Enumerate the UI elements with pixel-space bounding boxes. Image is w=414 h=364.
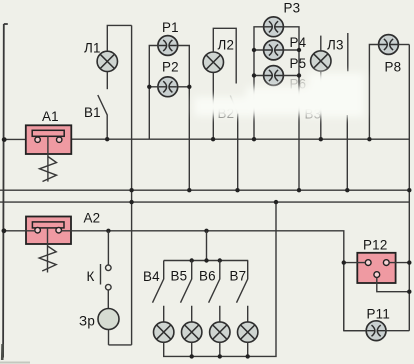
lamp L3 [311, 33, 348, 139]
svg-text:В6: В6 [199, 269, 216, 284]
lamp B5 lamp [182, 322, 202, 342]
wire L1 top bracket [107, 25, 131, 51]
switch B5 [181, 261, 192, 323]
node P5 left [252, 73, 256, 77]
wash band artifacts [194, 73, 364, 117]
svg-text:В5: В5 [171, 269, 188, 284]
wire bus H2 [0, 189, 409, 191]
wire P8 left [369, 45, 378, 140]
socket P11 [366, 321, 386, 341]
wire P12 right pin [389, 262, 409, 264]
svg-text:Зр: Зр [79, 314, 95, 329]
wire bus H1 [4, 138, 410, 140]
node P12 bottom [407, 290, 411, 294]
socket P8 [379, 35, 399, 55]
node lamp return H3 [274, 200, 278, 204]
wire P8 right [398, 44, 409, 46]
node lamp B5 bus [190, 354, 194, 358]
svg-text:Л2: Л2 [218, 38, 235, 53]
wire P1P2 right bus [178, 46, 190, 191]
svg-text:Р8: Р8 [385, 60, 402, 75]
node mid rail H2 [129, 188, 133, 192]
node header feed [204, 258, 208, 262]
wire Zr bottom [108, 330, 110, 345]
lamp L1 [97, 25, 132, 89]
node P12 right [407, 260, 411, 264]
node P3 bus to H2 [297, 188, 301, 192]
svg-text:Р1: Р1 [162, 20, 179, 35]
wire lamps bottom bus [164, 202, 276, 356]
node A2 wire lamp branch [204, 229, 208, 233]
node P3 bus to H1 [252, 137, 256, 141]
wire B3 upper stub [347, 33, 349, 71]
wire P12 bottom pin [377, 278, 410, 292]
switch B2 faded blade [230, 96, 237, 114]
node lamp B7 bus [246, 354, 250, 358]
wire A1 stem [47, 136, 49, 181]
wire A2 stem [47, 228, 49, 273]
svg-text:В1: В1 [84, 105, 101, 120]
bell Zr [98, 309, 119, 330]
node A2 wire left [2, 228, 7, 233]
lamp B7 lamp [238, 322, 258, 342]
switch B6 [209, 261, 220, 323]
node B2-H2 [235, 188, 239, 192]
breaker A2 [26, 217, 71, 273]
node L2-H1 [211, 137, 215, 141]
button K [101, 231, 112, 308]
svg-text:А2: А2 [84, 211, 101, 226]
node L3-H1 [319, 137, 323, 141]
wire P12 left pin [344, 262, 366, 331]
node header B6 [218, 258, 222, 262]
node P1P2 bus to H2 [187, 188, 191, 192]
wire L2 top bracket [213, 28, 236, 83]
wire mid rail [131, 25, 133, 345]
node A2 wire K branch [106, 229, 110, 233]
node P12 left [342, 260, 346, 264]
node P2 right [187, 85, 191, 89]
svg-text:Р3: Р3 [284, 1, 301, 16]
socket P1 [158, 36, 178, 56]
switch B1 [98, 95, 107, 139]
node P5 right [297, 73, 301, 77]
node P8-H1 [367, 137, 371, 141]
wire P1P2 left bus [149, 46, 158, 140]
lamp L2 [203, 28, 236, 139]
node header B5 [190, 258, 194, 262]
wire bell loop bottom [109, 344, 132, 346]
svg-text:Р12: Р12 [363, 238, 388, 253]
wire L2 bottom lead [212, 73, 214, 140]
node B3-H2 [345, 188, 349, 192]
wire L3 top lead [320, 36, 322, 51]
socket P3 [264, 17, 284, 37]
node H2 right [407, 188, 411, 192]
wire L3 bottom lead [320, 71, 322, 139]
svg-text:К: К [87, 269, 95, 284]
switch B2 (faded) [237, 114, 239, 191]
node P4 right [297, 48, 301, 52]
svg-text:Л3: Л3 [327, 38, 344, 53]
svg-text:Р4: Р4 [290, 35, 307, 50]
switch B3 (faded) [346, 115, 348, 190]
wire B switches header [164, 231, 249, 261]
svg-text:Р11: Р11 [367, 307, 391, 322]
node mid rail H3 [129, 200, 133, 204]
wire A2 feed [4, 231, 368, 331]
switch B7 [237, 261, 248, 323]
switch B4 [153, 261, 164, 323]
node P4 left [252, 48, 256, 52]
wire P11 left [344, 330, 366, 332]
node P2 left [147, 85, 151, 89]
node A1 wire left [2, 137, 7, 142]
wire P3 group left bus [254, 27, 264, 139]
wire bus H3 [0, 201, 409, 203]
wire right rail [408, 45, 410, 331]
resistor A1 zigzag [40, 157, 57, 182]
breaker A1 [26, 125, 72, 181]
lamp B6 lamp [210, 322, 230, 342]
wire P11 right [386, 330, 409, 332]
wire left rail [3, 24, 8, 358]
socket P2 [158, 77, 178, 97]
scan artifact bottom-left [1, 344, 4, 360]
svg-text:Л1: Л1 [84, 41, 101, 56]
svg-text:В4: В4 [143, 269, 160, 284]
svg-text:Р5: Р5 [290, 56, 307, 71]
node lamp B6 bus [218, 354, 222, 358]
svg-text:А1: А1 [42, 109, 59, 124]
wire L1 bottom lead [106, 72, 108, 89]
relay P12 [357, 253, 395, 283]
svg-text:Р2: Р2 [162, 60, 179, 75]
resistor A2 zigzag [39, 246, 56, 271]
socket P5 [264, 66, 284, 86]
socket P4 [264, 40, 284, 60]
node B1-H1 [105, 137, 109, 141]
wire P3 group right bus [283, 27, 299, 190]
lamp B4 lamp [154, 322, 174, 342]
svg-text:В7: В7 [230, 269, 247, 284]
